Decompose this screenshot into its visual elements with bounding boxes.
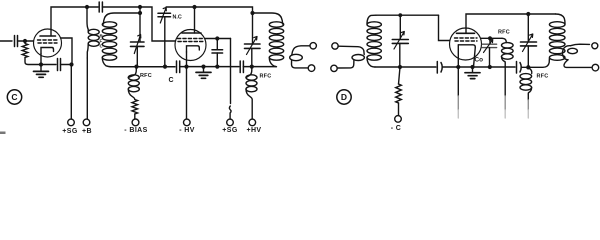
label (D) xyxy=(337,90,351,104)
capacitor tank D-out variable xyxy=(521,14,537,67)
wire +SG feed down xyxy=(70,65,72,119)
svg-text:RFC: RFC xyxy=(498,30,510,36)
wire +B feed down xyxy=(86,58,88,119)
wire grid2 drop from tank1 top xyxy=(140,7,176,41)
wire tank1 coil bottom to rail xyxy=(102,58,111,67)
resistor grid leak R1 xyxy=(22,44,28,58)
tube V3 cathode xyxy=(459,45,476,48)
node cathode D right / ground xyxy=(470,65,474,69)
link coil output D xyxy=(562,46,570,60)
ground (cathode V2) xyxy=(196,67,211,79)
wire screen V1 xyxy=(61,38,73,65)
RFC screen choke D (upper) xyxy=(502,38,506,42)
capacitor C (series, tank1 return) xyxy=(177,61,180,73)
wire NC top to plate rail xyxy=(166,6,194,8)
wire down to resistor xyxy=(399,67,401,84)
wire rail to tank D-out coil xyxy=(528,59,549,68)
RFC plate tank return choke xyxy=(246,67,252,78)
wire cathode2 to rail xyxy=(186,52,188,67)
svg-text:C: C xyxy=(11,92,17,102)
tube V3 grid (dashed) xyxy=(455,38,478,41)
wire screen V3 xyxy=(481,37,502,39)
bottom-left scan smudge xyxy=(0,132,6,135)
terminal output C top xyxy=(310,43,316,49)
node grid1 junction xyxy=(23,39,27,43)
wire tank2 top to coil xyxy=(253,13,283,24)
wire tank1 top to coil xyxy=(103,13,140,24)
wire tank D-in bottom rail xyxy=(375,66,436,68)
svg-text:C: C xyxy=(169,77,174,84)
wire rail cathode D xyxy=(457,66,516,68)
wire tank1 drop xyxy=(139,7,141,13)
link coil input D xyxy=(338,46,364,54)
capacitor series grid D xyxy=(437,62,456,74)
terminal input D bottom xyxy=(331,65,337,71)
wire plate V2 to rail xyxy=(194,7,196,30)
node Co tap xyxy=(488,36,492,40)
capacitor series plate return D xyxy=(517,62,529,74)
inductor tank D-in coil xyxy=(367,15,376,24)
wire resistor to -C terminal xyxy=(398,103,400,115)
wire screen supply down (crosses rail, cut off) xyxy=(504,63,506,96)
RFC plate choke V1 xyxy=(87,7,88,32)
capacitor screen bypass V1 xyxy=(41,59,72,71)
ground (cathode V3) xyxy=(465,67,480,79)
terminal +SG (V2) xyxy=(227,119,234,126)
svg-text:RFC: RFC xyxy=(140,73,152,79)
wire rail cathode section xyxy=(180,66,239,68)
wire tank D-in top rail xyxy=(376,14,439,16)
svg-text:Co: Co xyxy=(475,57,484,64)
capacitor tank1 variable xyxy=(131,13,145,67)
inductor tank1 coil xyxy=(102,22,116,60)
terminal -C xyxy=(395,116,402,123)
wire resistor to -BIAS terminal xyxy=(134,114,136,119)
wire tank1 bottom rail xyxy=(110,66,175,68)
node NC bottom on rail xyxy=(163,65,167,69)
svg-text:D: D xyxy=(341,92,347,102)
node screen1 junction xyxy=(69,62,73,66)
terminal +B xyxy=(83,119,90,126)
ground (cathode V1) xyxy=(34,65,49,78)
wire plate supply down (cut off) xyxy=(527,94,529,100)
node tank1 top xyxy=(138,5,142,9)
capacitor screen bypass V2 xyxy=(212,39,223,67)
svg-text:+SG: +SG xyxy=(62,128,78,135)
node cathode D left xyxy=(456,65,460,69)
capacitor input coupling C xyxy=(15,36,18,47)
capacitor tank D-in variable xyxy=(392,15,408,67)
node cathode1/ground junction xyxy=(39,62,43,66)
node screen2 cap tap xyxy=(215,36,219,40)
wire tank2 coil bottom to rail xyxy=(269,58,276,67)
node cap tap D-in xyxy=(398,13,402,17)
wire cathode1 down to ground rail xyxy=(40,54,42,65)
wire plate V1 to top rail xyxy=(51,7,87,29)
wire grid D from tank top xyxy=(439,15,450,40)
capacitor tank2 variable xyxy=(245,13,261,67)
terminal output C bottom xyxy=(308,65,315,72)
node plate rail / RFC tap xyxy=(85,5,89,9)
terminal +SG (C) xyxy=(68,119,75,126)
tube V1 grid (dashed) xyxy=(38,40,58,43)
node cathode2 xyxy=(184,65,188,69)
terminal -BIAS xyxy=(132,119,139,126)
svg-text:- HV: - HV xyxy=(179,127,195,134)
terminal output D bottom xyxy=(592,64,599,71)
svg-text:+HV: +HV xyxy=(246,127,261,134)
node tank1 coil tap xyxy=(138,11,142,15)
terminal output D top xyxy=(592,43,598,49)
terminal +HV xyxy=(249,119,256,126)
wire -HV feed xyxy=(186,67,188,119)
tube V1 cathode xyxy=(41,48,54,54)
terminal input D top xyxy=(332,43,338,49)
wire NC bottom down to rail xyxy=(164,17,166,67)
wire cathode D legs to rail xyxy=(458,45,475,67)
wire filament supply down (cut off) xyxy=(457,67,459,96)
svg-text:- BIAS: - BIAS xyxy=(124,127,147,134)
node tank D-out bottom xyxy=(526,65,530,69)
wire resistor to ground rail xyxy=(25,58,40,65)
link coil output C xyxy=(292,46,310,55)
node screen cap bottom xyxy=(215,65,219,69)
RFC grid bias choke xyxy=(128,67,136,78)
tube V3 plate xyxy=(457,28,475,33)
wire cap to grid node xyxy=(18,40,34,42)
RFC tank return choke D (lower) xyxy=(528,68,532,74)
capacitor series tank2 return xyxy=(240,61,276,73)
inductor tank D-out coil xyxy=(556,14,566,24)
svg-text:RFC: RFC xyxy=(260,74,272,80)
tube V2 grid (dashed) xyxy=(178,39,204,42)
tube V2 plate xyxy=(182,30,201,33)
tube V1 envelope xyxy=(34,29,62,57)
wire screen V2 xyxy=(205,38,231,40)
capacitor NC neutralizing xyxy=(158,7,171,23)
node tank1 cap bottom xyxy=(134,65,138,69)
wire +SG(C2) feed down (crosses rail, no dot) xyxy=(229,39,231,120)
tube V2 cathode xyxy=(187,46,200,52)
capacitor plate blocking C xyxy=(87,2,140,12)
svg-text:- C: - C xyxy=(391,125,402,132)
node Co bottom xyxy=(488,65,492,69)
label (C) xyxy=(7,90,21,104)
node plate V2 rail xyxy=(192,5,196,9)
tube V3 envelope xyxy=(450,28,482,60)
capacitor Co variable xyxy=(482,38,496,67)
node cap tap D-out xyxy=(526,12,530,16)
tube V1 plate xyxy=(40,29,56,36)
node ground2 xyxy=(201,65,205,69)
wire plate rail to tank2 xyxy=(195,7,253,13)
node tank2 cap bottom / RFC tap xyxy=(250,65,254,69)
svg-text:RFC: RFC xyxy=(537,74,549,80)
terminal -HV xyxy=(184,119,191,126)
svg-text:+B: +B xyxy=(82,128,92,135)
node tank2 coil tap xyxy=(250,11,254,15)
resistor grid D R3 xyxy=(396,84,402,103)
node resistor tap D xyxy=(398,65,402,69)
inductor tank2 coil xyxy=(269,22,283,60)
resistor bias R2 xyxy=(132,100,138,115)
wire plate V3 to top rail xyxy=(466,14,556,28)
tube V2 envelope xyxy=(175,30,206,61)
svg-text:+SG: +SG xyxy=(222,127,238,134)
svg-text:N.C: N.C xyxy=(173,14,182,20)
wire input grid C xyxy=(0,40,12,42)
